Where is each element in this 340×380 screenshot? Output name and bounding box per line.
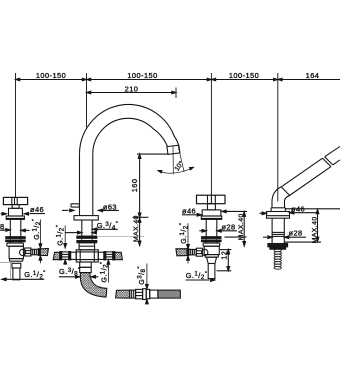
flange (6, 216, 24, 219)
threaded rod coil (274, 249, 281, 269)
tee right ferrule (113, 252, 115, 260)
locknut dark (270, 247, 286, 249)
bottom block (80, 262, 92, 267)
braided hose (158, 290, 180, 298)
hex nut (136, 289, 143, 298)
faint tick to washer (98, 236, 144, 238)
flange (201, 216, 221, 219)
dimension MAX40 (243, 211, 245, 246)
o-ring band 1 (6, 237, 25, 239)
spout arc outer wall (80, 104, 179, 153)
dimension 12 (220, 249, 231, 251)
shower barrel upper wall (281, 158, 322, 187)
shower barrel lower wall (290, 167, 332, 196)
nozzle centerline (172, 146, 174, 174)
hex nut band (7, 243, 24, 246)
spout arc inner wall (93, 118, 168, 154)
svg-text:100-150: 100-150 (36, 71, 66, 80)
o-ring band 2 (202, 240, 222, 242)
tailpiece collar (12, 263, 21, 268)
elbow outer wall (272, 187, 281, 208)
body (205, 219, 207, 236)
column walls (79, 154, 81, 216)
side outlet ferrule (38, 249, 40, 256)
body (9, 219, 11, 236)
side outlet hex (196, 248, 202, 256)
bottom tube (13, 268, 20, 280)
washer band 1 (77, 236, 97, 238)
spout flange (74, 216, 98, 220)
elbow joint line (281, 187, 290, 196)
extension line shower (277, 73, 279, 202)
tee right washer (104, 252, 106, 260)
tee right nut (106, 252, 113, 260)
receiver collar line (271, 207, 285, 209)
stem (12, 205, 19, 209)
spout (53, 104, 194, 297)
right handle (176, 195, 247, 281)
faint guide line v (10, 263, 12, 279)
svg-text:100-150: 100-150 (127, 71, 157, 80)
dimension line (16, 79, 340, 81)
svg-text:MAX.40: MAX.40 (133, 215, 140, 242)
bonnet (202, 210, 221, 216)
tee right hose stub (115, 252, 123, 259)
bottom tube (208, 264, 215, 279)
handle bar (197, 195, 226, 204)
hex nut band (203, 243, 220, 246)
ferrule (130, 290, 136, 298)
dimension chain top (16, 71, 340, 201)
nipple block (150, 290, 158, 298)
10 deg ray (178, 146, 184, 172)
extension line left handle (15, 73, 17, 197)
dimension MAX40 spout (139, 217, 141, 246)
stem (207, 204, 215, 210)
elbow inner wall (285, 196, 290, 208)
tee left hose stub (53, 252, 60, 259)
washer band 2 (77, 241, 97, 243)
deck surface line right (285, 208, 340, 210)
body below deck (271, 218, 273, 244)
svg-text:100-150: 100-150 (229, 71, 259, 80)
side outlet hex (25, 248, 31, 256)
tee left ferrule (60, 252, 62, 260)
extension line spout (86, 73, 88, 127)
barrel grip joint line B (325, 157, 333, 165)
tee left washer (69, 252, 71, 260)
svg-text:ø28: ø28 (289, 228, 303, 237)
receiver collar (270, 208, 272, 212)
extension line right handle (210, 73, 212, 195)
valve block (204, 246, 219, 254)
shower head bottom wall (333, 160, 340, 165)
left handle (0, 197, 48, 280)
side port boss (202, 249, 208, 255)
adapter stack (79, 243, 95, 250)
side outlet nipple (31, 249, 38, 255)
tee left block (71, 252, 77, 259)
svg-text:ø28: ø28 (222, 223, 236, 232)
tee left nut (62, 252, 69, 260)
dimension MAX40 (317, 209, 319, 242)
svg-text:G.1/2”: G.1/2” (24, 270, 46, 281)
diverter lever (71, 204, 79, 207)
bonnet (9, 208, 23, 216)
collar 2 (146, 289, 150, 298)
o-ring band 1 (202, 237, 222, 239)
flex hose assembly (116, 264, 181, 304)
shower head top wall (325, 146, 340, 156)
escutcheon flange (267, 212, 290, 219)
curved hose (80, 273, 107, 298)
svg-text:MAX.40: MAX.40 (311, 216, 318, 243)
swivel arc (158, 167, 194, 173)
bottom line under body (284, 241, 321, 243)
tailpiece collar (207, 257, 217, 263)
svg-text:MAX.40: MAX.40 (238, 213, 245, 240)
svg-text:G.1/2”: G.1/2” (186, 271, 208, 282)
handle bar (3, 197, 27, 204)
dimension 160 (137, 153, 168, 155)
left hose end (116, 290, 130, 298)
svg-text:12: 12 (222, 251, 229, 260)
tee body (76, 250, 98, 262)
svg-text:164: 164 (306, 71, 320, 80)
nozzle (167, 145, 180, 154)
bottom band (10, 259, 23, 262)
side outlet hose stub (176, 249, 187, 256)
tee right block (98, 252, 104, 259)
collar (143, 289, 147, 300)
svg-text:G.1/2”: G.1/2” (55, 225, 65, 246)
bottom coupler (80, 267, 92, 272)
barrel grip joint line A (323, 158, 332, 166)
svg-text:G3/8”: G3/8” (137, 266, 147, 285)
svg-text:ø46: ø46 (182, 206, 196, 215)
washer dark (268, 244, 288, 247)
faint guide line h (0, 262, 12, 264)
thread bands (272, 231, 284, 233)
dimension 210 line (87, 92, 177, 94)
svg-text:160: 160 (130, 179, 139, 193)
side port boss (20, 249, 26, 255)
side outlet hose stub (40, 249, 48, 256)
svg-text:ø46: ø46 (30, 205, 44, 214)
arrowheads at ticks (16, 78, 20, 81)
side outlet nipple (189, 249, 196, 255)
svg-text:210: 210 (125, 84, 139, 93)
column below deck (81, 220, 83, 236)
side outlet ferrule (187, 249, 189, 256)
valve block (9, 246, 23, 258)
bottom band (205, 255, 218, 258)
hand shower (260, 146, 340, 269)
o-ring band 2 (6, 240, 25, 242)
